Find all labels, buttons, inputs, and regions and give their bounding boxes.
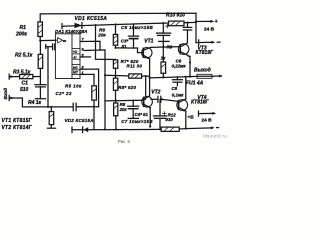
wire to VT4 base [161,99,178,101]
svg-text:НС: НС [73,71,78,75]
capacitor C7 electrolytic [159,100,161,116]
wire VT1 collector line to VT3 base [151,46,181,49]
svg-text:Вход: Вход [3,88,8,100]
resistor R11 30 [129,74,142,78]
svg-text:С4* 51: С4* 51 [135,112,149,117]
capacitor C3* 51 [133,24,135,36]
resistor R1 200k [38,22,43,37]
svg-text:С5 10мк×15В: С5 10мк×15В [121,25,153,30]
node rail-bottom x105 [104,128,106,130]
svg-text:С2* 22: С2* 22 [56,91,72,96]
svg-text:R5 10к: R5 10к [65,83,82,88]
svg-text:510: 510 [20,87,29,93]
wire R11 node to VT2 [145,76,147,97]
svg-text:VT1: VT1 [144,38,153,44]
capacitor small above VT3 [187,23,189,28]
wire input to op-amp [40,39,56,41]
node A2 [114,23,116,25]
capacitor C8 0.1mk [151,98,158,100]
wire bottom rail [72,128,161,130]
svg-text:1к: 1к [161,55,166,60]
resistor R2 5.1k [39,41,41,55]
svg-text:R11 30: R11 30 [127,63,143,68]
fuse FU1 4A [197,74,212,78]
svg-text:VT2 КТ814Г: VT2 КТ814Г [2,125,33,131]
resistor R12 910 [161,127,179,131]
svg-text:20к: 20к [97,33,106,38]
node A1 [94,24,96,26]
svg-text:R1: R1 [20,25,27,31]
wire VT4 emitter down [185,111,187,129]
svg-text:ldsound.ru: ldsound.ru [203,134,227,139]
svg-text:∞: ∞ [63,38,67,44]
svg-text:R10 910: R10 910 [166,13,185,19]
node A4 [186,22,188,24]
svg-text:FU1 4А: FU1 4А [186,81,204,87]
resistor R8 20k lower [114,103,118,116]
svg-text:VT1 КТ815Г: VT1 КТ815Г [2,118,33,124]
svg-text:0,1мк: 0,1мк [172,93,184,98]
transistor VT3 [178,44,189,55]
wire R6 to VT1 base [116,48,144,53]
svg-text:DA1 К140УД8А: DA1 К140УД8А [55,29,87,34]
wire VT1 emitter vertical [149,59,151,96]
svg-text:Выход: Выход [194,67,211,73]
svg-text:+Б: +Б [187,115,194,121]
capacitor C5 10mk [162,23,164,33]
resistor R4 1k [50,107,52,112]
resistor R7* 620 [115,59,117,61]
capacitor at op-amp inverting input [45,45,47,49]
svg-text:24 В: 24 В [202,118,213,124]
svg-text:VD2 КС515А: VD2 КС515А [65,118,94,123]
op-amp pin leads [80,56,91,58]
wire top rail [40,13,196,22]
wire middle right arrow (output return) [198,111,200,116]
wire VT2 base line [105,99,144,102]
svg-text:R3 5,1к: R3 5,1к [13,69,31,75]
wire to R11 [105,74,129,77]
op-amp DA1 box [55,34,80,79]
wire VT4 collector up [185,77,187,99]
svg-text:С7 10мк×15В: С7 10мк×15В [121,119,153,124]
svg-text:С1: С1 [22,81,29,87]
svg-text:R4 1к: R4 1к [28,100,42,106]
wire bottom right arrow [186,127,211,130]
wire VT3 emitter down [189,57,191,77]
svg-text:200к: 200к [15,31,27,37]
svg-text:R9: R9 [167,44,173,49]
wire right supply vertical [195,13,197,42]
node A3 [162,22,164,24]
capacitor C1 510 [39,77,41,85]
capacitor C4* 51 [132,101,134,107]
wire input node vertical [47,47,49,107]
capacitor C6 0.22mk [176,77,178,80]
wire -24V arrow [196,41,212,43]
svg-text:С8: С8 [172,86,178,91]
node VT2 base line [115,100,117,102]
svg-text:КТ818Г: КТ818Г [191,99,210,105]
resistor R10 910 [169,21,185,26]
zener VD2 KC515A [84,127,89,132]
svg-text:+: + [215,19,218,25]
resistor R9 1k [162,47,164,62]
svg-text:910: 910 [165,117,173,122]
svg-text:R2 5,1к: R2 5,1к [15,52,33,58]
node R6 bottom [114,47,116,49]
wire input lower [8,96,10,101]
op-amp symbol [58,38,63,43]
svg-text:VD1 КС515А: VD1 КС515А [75,16,108,22]
svg-text:КТ819Г: КТ819Г [196,50,215,56]
zener VD1 KC515A [75,23,82,29]
svg-text:+U: +U [73,50,78,54]
node R7-R8 [114,75,116,77]
svg-text:R8* 620: R8* 620 [118,85,136,90]
resistor R8* 620 [113,78,117,90]
wire +24V arrow [196,20,211,22]
svg-text:51: 51 [122,44,127,49]
resistor R5 10k [92,86,97,100]
svg-text:VT2: VT2 [151,89,160,95]
resistor R6 20k [115,24,117,34]
resistor R3 5.1k with input [8,74,10,79]
wire output line [150,76,197,78]
wire VT2 collector down [149,108,151,127]
svg-text:1: 1 [82,71,84,75]
wire branch from node A1 down [96,25,116,59]
wire op-amp pin7 loop and long vertical [80,41,100,50]
svg-text:Рис. 5: Рис. 5 [118,139,131,144]
capacitor C2* 22 [51,106,73,108]
transistor VT1 [142,48,152,58]
svg-text:НС: НС [73,66,78,70]
svg-text:20к: 20к [119,107,128,112]
node supply+ [195,20,197,22]
transistor VT2 [142,97,153,108]
transistor VT4 [177,100,188,111]
svg-text:24 В: 24 В [204,27,215,33]
wire VD1 zener rail [62,22,196,26]
svg-text:0,22мк: 0,22мк [172,64,187,69]
svg-text:-U: -U [73,55,77,59]
